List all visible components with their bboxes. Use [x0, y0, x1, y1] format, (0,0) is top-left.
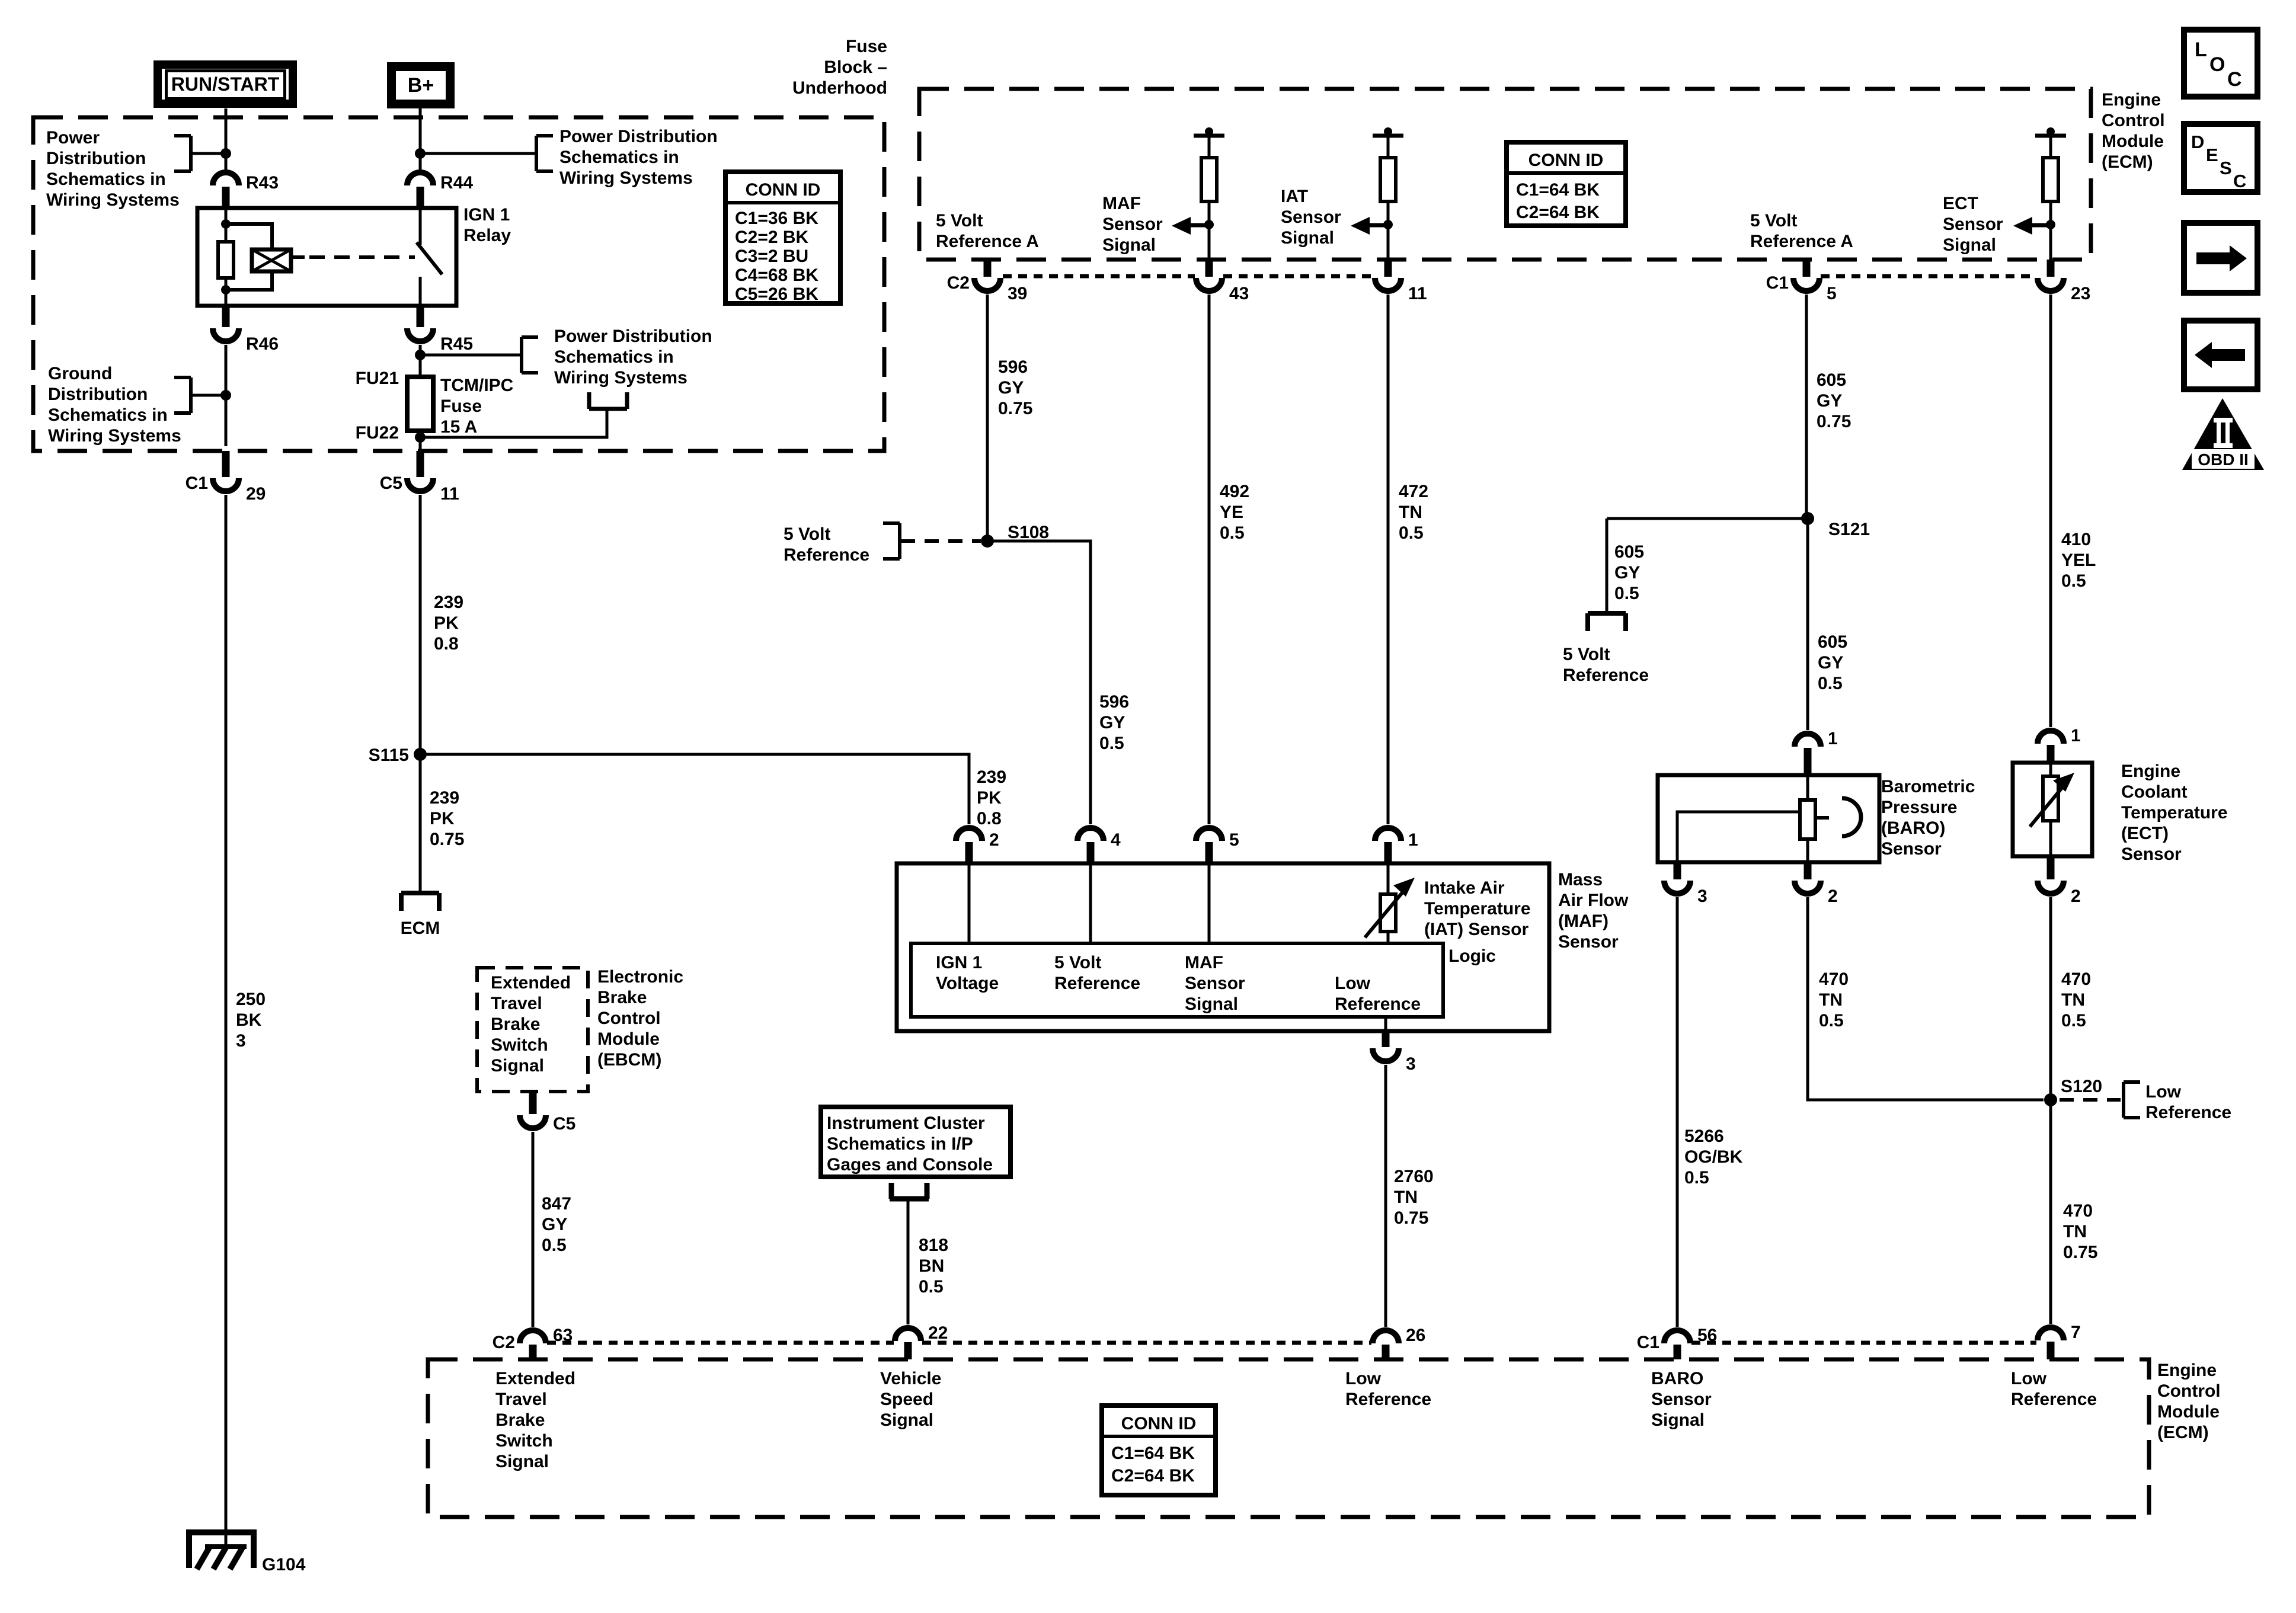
- junction S108: [981, 535, 994, 548]
- engine control module bottom dashed box: [428, 1359, 2149, 1517]
- svg-text:0.5: 0.5: [1614, 584, 1639, 603]
- svg-text:472: 472: [1399, 482, 1428, 501]
- svg-text:Control: Control: [597, 1009, 661, 1028]
- connector pin 5: [1196, 828, 1239, 863]
- svg-text:S: S: [2220, 158, 2232, 178]
- svg-text:Reference: Reference: [2011, 1390, 2097, 1409]
- svg-text:Temperature: Temperature: [2121, 803, 2228, 822]
- label 847 GY 0.5: [542, 1194, 571, 1255]
- wire 847 GY 0.5: [532, 1132, 535, 1327]
- svg-text:39: 39: [1008, 284, 1027, 303]
- svg-text:Wiring Systems: Wiring Systems: [554, 368, 687, 388]
- label MAF sensor signal pin: [1185, 953, 1245, 1014]
- svg-text:GY: GY: [1817, 391, 1842, 411]
- svg-text:PK: PK: [430, 809, 455, 828]
- svg-text:OBD II: OBD II: [2198, 450, 2249, 469]
- svg-text:Schematics in: Schematics in: [554, 347, 674, 367]
- label instrument cluster: [827, 1113, 993, 1174]
- svg-text:Engine: Engine: [2157, 1361, 2217, 1380]
- svg-text:11: 11: [440, 484, 459, 504]
- wire fuse to C5: [419, 431, 422, 452]
- svg-text:Module: Module: [2157, 1402, 2220, 1422]
- svg-text:Wiring Systems: Wiring Systems: [559, 168, 693, 188]
- svg-text:0.5: 0.5: [2061, 1011, 2086, 1030]
- arrow IAT signal: [1351, 217, 1388, 235]
- bracket power distribution callout: [174, 136, 191, 171]
- icon arrow left: [2184, 321, 2257, 389]
- junction IAT signal: [1383, 220, 1393, 229]
- connector boundary fine dash top left: [1003, 274, 1195, 279]
- label 5 volt reference dest: [1563, 645, 1649, 685]
- wire coil to R46: [225, 290, 228, 306]
- svg-text:Low: Low: [2145, 1082, 2182, 1102]
- svg-text:Reference: Reference: [2145, 1103, 2231, 1122]
- svg-text:470: 470: [1819, 969, 1849, 989]
- svg-text:818: 818: [919, 1236, 948, 1255]
- svg-text:Intake Air: Intake Air: [1424, 878, 1505, 898]
- wire solenoid stub: [291, 255, 305, 259]
- svg-text:C4=68 BK: C4=68 BK: [735, 265, 818, 285]
- svg-text:5 Volt: 5 Volt: [936, 211, 983, 231]
- IAT thermistor arrow: [1365, 878, 1415, 937]
- label barometric pressure sensor: [1881, 777, 1975, 859]
- svg-text:(IAT) Sensor: (IAT) Sensor: [1424, 920, 1528, 939]
- wire ECT internal top: [2049, 763, 2052, 776]
- svg-text:0.5: 0.5: [1099, 734, 1124, 753]
- connector 43: [1196, 260, 1249, 303]
- wire relay coil top: [225, 208, 228, 224]
- svg-text:0.5: 0.5: [542, 1236, 567, 1255]
- wire S121 left branch: [1607, 517, 1808, 520]
- svg-text:Block –: Block –: [824, 57, 887, 77]
- CONN ID box ECM top: [1507, 142, 1626, 226]
- arrow MAF signal: [1172, 217, 1209, 235]
- svg-text:Barometric: Barometric: [1881, 777, 1975, 796]
- label ground distribution schematics: [48, 364, 181, 446]
- svg-text:29: 29: [246, 484, 266, 504]
- svg-text:Signal: Signal: [1651, 1410, 1705, 1430]
- svg-text:Low: Low: [1345, 1369, 1382, 1388]
- svg-text:Power: Power: [46, 128, 100, 148]
- label power distribution schematics: [46, 128, 180, 210]
- svg-text:0.75: 0.75: [1817, 412, 1851, 431]
- svg-text:CONN ID: CONN ID: [746, 180, 821, 200]
- svg-text:C2=2 BK: C2=2 BK: [735, 228, 809, 247]
- wire 472 TN 0.5: [1387, 295, 1390, 824]
- svg-text:B+: B+: [408, 74, 434, 97]
- junction FU22 branch: [415, 432, 426, 443]
- label S115: [369, 745, 409, 765]
- svg-text:Low: Low: [1335, 974, 1371, 993]
- label 5 volt reference: [784, 524, 869, 565]
- svg-text:0.75: 0.75: [998, 399, 1032, 418]
- svg-text:R45: R45: [440, 334, 473, 354]
- svg-text:Sensor: Sensor: [2121, 844, 2182, 864]
- svg-text:Sensor: Sensor: [1281, 207, 1341, 227]
- resistor ECT thermistor: [2043, 776, 2058, 821]
- svg-text:Fuse: Fuse: [440, 396, 482, 416]
- wire B+ to R44: [419, 108, 422, 170]
- junction coil top: [221, 219, 231, 229]
- label 605 GY 0.5: [1818, 632, 1847, 693]
- wire logic to pin 3: [1384, 1017, 1387, 1031]
- wire S121 branch down: [1606, 519, 1609, 613]
- label mass air flow sensor: [1558, 870, 1629, 952]
- label 596 GY 0.75: [998, 357, 1032, 418]
- connector boundary fine dash bottom right: [1691, 1341, 2036, 1345]
- wire 250 BK to G104: [225, 495, 228, 1545]
- svg-text:Distribution: Distribution: [46, 149, 146, 168]
- ground G104: [189, 1532, 254, 1569]
- svg-text:C2=64 BK: C2=64 BK: [1111, 1466, 1195, 1486]
- label EBCM: [597, 967, 683, 1070]
- svg-text:5 Volt: 5 Volt: [784, 524, 830, 544]
- junction S115: [414, 748, 427, 761]
- fuse block underhood dashed box: [33, 117, 884, 451]
- svg-text:CONN ID: CONN ID: [1121, 1414, 1197, 1433]
- svg-text:MAF: MAF: [1102, 194, 1141, 213]
- connector BARO pin 3 conn: [1664, 862, 1707, 906]
- bracket power distribution callout 4: [589, 392, 627, 409]
- svg-text:C2: C2: [947, 273, 970, 293]
- svg-text:3: 3: [1406, 1054, 1416, 1074]
- svg-text:Schematics in: Schematics in: [48, 405, 168, 425]
- svg-text:0.8: 0.8: [434, 634, 459, 654]
- label S108: [1008, 523, 1049, 542]
- svg-text:56: 56: [1697, 1326, 1717, 1345]
- svg-text:Vehicle: Vehicle: [880, 1369, 941, 1388]
- bracket power distribution callout 2: [536, 136, 553, 171]
- svg-text:TN: TN: [1399, 503, 1422, 522]
- svg-text:OG/BK: OG/BK: [1684, 1147, 1743, 1167]
- label intake air temperature sensor: [1424, 878, 1531, 939]
- svg-text:239: 239: [430, 788, 459, 808]
- label Fuse Block Underhood: [792, 37, 887, 98]
- svg-text:Pressure: Pressure: [1881, 798, 1957, 817]
- svg-text:ECM: ECM: [401, 918, 440, 938]
- dest bracket instrument cluster: [890, 1183, 929, 1199]
- wire BARO pin2 internal: [1806, 839, 1809, 862]
- svg-text:TCM/IPC: TCM/IPC: [440, 376, 513, 395]
- svg-text:Instrument Cluster: Instrument Cluster: [827, 1113, 985, 1133]
- svg-text:Reference A: Reference A: [1750, 232, 1853, 251]
- label 5 Volt Reference A left: [936, 211, 1039, 251]
- wire 818 BN 0.5: [907, 1198, 910, 1324]
- svg-text:Signal: Signal: [1102, 235, 1156, 255]
- connector BARO pin 1: [1795, 729, 1838, 775]
- svg-text:S108: S108: [1008, 523, 1049, 542]
- label MAF sensor signal: [1102, 194, 1163, 255]
- svg-text:Schematics in: Schematics in: [46, 169, 166, 189]
- label S120: [2061, 1077, 2102, 1096]
- junction S120: [2044, 1093, 2057, 1106]
- dashed wire low reference: [2060, 1098, 2121, 1102]
- junction MAF signal: [1204, 220, 1214, 229]
- label S121: [1828, 520, 1870, 539]
- ECT thermistor arrow: [2030, 773, 2074, 827]
- label G104: [262, 1555, 306, 1574]
- svg-text:(ECM): (ECM): [2102, 152, 2153, 172]
- svg-text:Distribution: Distribution: [48, 385, 148, 404]
- connector pin 4: [1077, 828, 1121, 863]
- icon LOC: [2184, 30, 2257, 97]
- MAF sensor box: [897, 863, 1549, 1031]
- instrument cluster box: [821, 1107, 1011, 1177]
- wire to power dist bracket 3: [420, 354, 522, 357]
- EBCM dashed box: [477, 968, 588, 1092]
- wire 492 YE 0.5: [1208, 295, 1211, 824]
- wire to power dist bracket: [191, 152, 226, 155]
- ECT pullup wire: [2049, 136, 2052, 158]
- svg-text:470: 470: [2061, 969, 2091, 989]
- svg-text:Brake: Brake: [495, 1410, 545, 1430]
- svg-text:605: 605: [1817, 370, 1846, 390]
- svg-text:GY: GY: [1614, 563, 1640, 583]
- svg-text:C1=36 BK: C1=36 BK: [735, 209, 818, 228]
- svg-text:605: 605: [1818, 632, 1847, 652]
- connector pin 3: [1373, 1031, 1416, 1074]
- wire 2760 TN 0.75: [1384, 1065, 1387, 1327]
- connector C1 5: [1766, 260, 1837, 303]
- svg-text:43: 43: [1229, 284, 1249, 303]
- svg-text:Reference A: Reference A: [936, 232, 1039, 251]
- connector boundary fine dash top mid: [1223, 274, 1374, 279]
- label 5 volt reference pin: [1054, 953, 1140, 993]
- wire BARO pin1 internal: [1806, 775, 1809, 800]
- svg-text:Power Distribution: Power Distribution: [559, 127, 718, 146]
- svg-text:Gages and Console: Gages and Console: [827, 1155, 993, 1174]
- connector C2 39: [947, 260, 1028, 303]
- connector 22: [895, 1323, 948, 1359]
- svg-text:Module: Module: [597, 1029, 660, 1049]
- svg-text:C5=26 BK: C5=26 BK: [735, 284, 818, 304]
- svg-text:239: 239: [977, 767, 1006, 787]
- label vehicle speed signal: [880, 1369, 941, 1430]
- wire pin4 to logic: [1089, 863, 1092, 943]
- wire S121 to BARO: [1806, 519, 1809, 730]
- svg-text:Signal: Signal: [1185, 994, 1238, 1014]
- svg-text:0.5: 0.5: [1220, 523, 1245, 543]
- wire S108 to pin 4: [987, 541, 1091, 824]
- connector C1 56: [1637, 1326, 1718, 1359]
- svg-text:Signal: Signal: [1281, 228, 1334, 248]
- svg-text:L: L: [2195, 39, 2207, 61]
- svg-text:IAT: IAT: [1281, 187, 1308, 206]
- wire: [225, 278, 228, 290]
- svg-text:Travel: Travel: [495, 1390, 547, 1409]
- svg-text:TN: TN: [2061, 990, 2085, 1010]
- MAF pullup wire: [1208, 136, 1211, 158]
- svg-text:Relay: Relay: [463, 226, 511, 245]
- svg-text:2: 2: [989, 830, 999, 850]
- connector C5 11: [380, 451, 459, 504]
- label ECM bottom: [2157, 1361, 2221, 1442]
- wire ECT internal bottom: [2049, 821, 2052, 856]
- svg-text:15 A: 15 A: [440, 417, 477, 437]
- label 605 GY 0.5 branch: [1614, 542, 1644, 603]
- wire FU22 to callout: [420, 409, 607, 437]
- svg-text:TN: TN: [1819, 990, 1843, 1010]
- svg-text:0.5: 0.5: [2061, 571, 2086, 591]
- svg-text:Air Flow: Air Flow: [1558, 891, 1629, 910]
- wire RUN/START to R43: [225, 108, 228, 170]
- svg-text:Underhood: Underhood: [792, 78, 887, 98]
- svg-text:Logic: Logic: [1448, 946, 1496, 966]
- dest bracket ECM: [401, 893, 439, 911]
- svg-text:0.8: 0.8: [977, 809, 1002, 828]
- IGN 1 relay box: [197, 208, 456, 306]
- svg-text:470: 470: [2063, 1201, 2093, 1221]
- svg-text:MAF: MAF: [1185, 953, 1223, 972]
- svg-text:5 Volt: 5 Volt: [1563, 645, 1610, 664]
- svg-text:S115: S115: [369, 745, 409, 765]
- svg-text:847: 847: [542, 1194, 571, 1214]
- connector C2 63: [493, 1326, 573, 1359]
- svg-text:(BARO): (BARO): [1881, 818, 1945, 838]
- svg-text:PK: PK: [977, 788, 1002, 808]
- connector 26: [1373, 1326, 1425, 1359]
- ECT pullup top dot: [2046, 127, 2055, 136]
- svg-text:IGN 1: IGN 1: [463, 205, 510, 225]
- svg-text:492: 492: [1220, 482, 1249, 501]
- IAT pullup wire: [1387, 136, 1390, 158]
- wire coil parallel branch: [226, 224, 272, 290]
- label 239 PK 0.8: [434, 593, 463, 654]
- svg-text:GY: GY: [1099, 713, 1125, 732]
- svg-text:23: 23: [2071, 284, 2090, 303]
- icon OBD II triangle: [2182, 398, 2264, 470]
- label TCM/IPC fuse: [440, 376, 513, 437]
- label 250 BK 3: [236, 990, 266, 1051]
- svg-text:(ECM): (ECM): [2157, 1423, 2209, 1442]
- svg-text:Ground: Ground: [48, 364, 112, 383]
- svg-text:0.5: 0.5: [919, 1277, 944, 1297]
- BARO pressure port symbol: [1815, 798, 1861, 836]
- svg-text:Engine: Engine: [2102, 90, 2161, 110]
- svg-text:CONN ID: CONN ID: [1528, 151, 1604, 170]
- svg-text:Extended: Extended: [491, 973, 571, 993]
- svg-text:C1: C1: [1766, 273, 1789, 293]
- power box RUN/START: [158, 65, 293, 104]
- svg-text:Extended: Extended: [495, 1369, 575, 1388]
- relay solenoid box: [252, 249, 291, 271]
- label 410 YEL 0.5: [2061, 530, 2096, 591]
- svg-text:0.75: 0.75: [430, 830, 464, 849]
- label FU22: [356, 423, 399, 443]
- wire: [225, 224, 228, 242]
- svg-text:Reference: Reference: [1335, 994, 1421, 1014]
- label 5266 OG/BK 0.5: [1684, 1126, 1743, 1188]
- bracket ground distribution callout: [174, 377, 191, 413]
- svg-text:Control: Control: [2102, 111, 2165, 130]
- label IAT sensor signal: [1281, 187, 1341, 248]
- resistor ECT pullup: [2043, 158, 2058, 201]
- svg-text:1: 1: [1828, 729, 1838, 748]
- svg-text:C: C: [2227, 68, 2242, 91]
- label 605 GY 0.75: [1817, 370, 1851, 431]
- junction coil bottom: [221, 285, 231, 295]
- IAT pullup wire lower: [1387, 201, 1390, 260]
- svg-text:YE: YE: [1220, 503, 1243, 522]
- relay coil resistor: [218, 242, 234, 278]
- svg-text:Wiring Systems: Wiring Systems: [46, 190, 180, 210]
- CONN ID box ECM bottom: [1102, 1406, 1216, 1495]
- connector C1 29: [186, 451, 266, 504]
- label 2760 TN 0.75: [1394, 1167, 1434, 1228]
- fuse FU21/FU22 TCM/IPC 15A: [407, 377, 433, 431]
- svg-text:GY: GY: [998, 378, 1024, 398]
- svg-text:Temperature: Temperature: [1424, 899, 1531, 918]
- svg-text:Fuse: Fuse: [846, 37, 887, 56]
- svg-text:0.5: 0.5: [1684, 1168, 1709, 1188]
- svg-text:C5: C5: [380, 473, 402, 493]
- svg-text:22: 22: [928, 1323, 948, 1343]
- ECT pullup wire lower: [2049, 201, 2052, 260]
- ECT sensor box: [2013, 763, 2092, 856]
- junction ground branch: [220, 390, 231, 401]
- svg-text:C3=2 BU: C3=2 BU: [735, 247, 808, 266]
- svg-text:Reference: Reference: [1345, 1390, 1431, 1409]
- svg-text:0.5: 0.5: [1819, 1011, 1844, 1030]
- label 239 PK 0.75: [430, 788, 464, 849]
- svg-text:Module: Module: [2102, 132, 2164, 151]
- wire BARO pin3 internal: [1677, 812, 1800, 862]
- BARO sensor box: [1658, 775, 1879, 862]
- svg-text:5: 5: [1827, 284, 1837, 303]
- label IGN 1 voltage: [936, 953, 999, 993]
- svg-text:7: 7: [2071, 1323, 2081, 1342]
- connector R46: [213, 306, 279, 354]
- connector boundary fine dash top right: [1821, 274, 2036, 279]
- svg-text:TN: TN: [1394, 1188, 1418, 1207]
- svg-text:Sensor: Sensor: [1102, 215, 1163, 234]
- svg-text:5 Volt: 5 Volt: [1054, 953, 1101, 972]
- icon DESC: [2184, 124, 2257, 192]
- svg-text:596: 596: [1099, 692, 1129, 712]
- svg-text:0.5: 0.5: [1818, 674, 1843, 693]
- wire R45 to fuse: [419, 345, 422, 377]
- label engine coolant temperature sensor: [2121, 761, 2228, 864]
- svg-text:Travel: Travel: [491, 994, 542, 1013]
- svg-text:5 Volt: 5 Volt: [1750, 211, 1797, 231]
- svg-text:C1: C1: [186, 473, 208, 493]
- label 470 TN 0.5 ECT: [2061, 969, 2091, 1030]
- svg-text:C1=64 BK: C1=64 BK: [1111, 1444, 1195, 1463]
- svg-text:(EBCM): (EBCM): [597, 1050, 661, 1070]
- svg-text:2: 2: [1828, 886, 1838, 906]
- relay control dashed line: [309, 255, 415, 259]
- connector boundary fine dash bottom left: [547, 1341, 894, 1345]
- label 596 GY 0.5: [1099, 692, 1129, 753]
- wire 239 PK to ECM: [419, 495, 422, 893]
- svg-text:63: 63: [553, 1326, 573, 1345]
- svg-text:BK: BK: [236, 1010, 262, 1030]
- label extended travel brake switch signal: [495, 1369, 575, 1471]
- label IGN 1 Relay: [463, 205, 511, 245]
- svg-text:S121: S121: [1828, 520, 1870, 539]
- svg-text:4: 4: [1111, 830, 1121, 850]
- wire to ground dist bracket: [191, 394, 226, 397]
- dest bracket 5 volt reference: [1588, 613, 1626, 631]
- connector pin 1: [1375, 828, 1418, 863]
- svg-text:1: 1: [2071, 726, 2081, 745]
- svg-text:Coolant: Coolant: [2121, 782, 2188, 802]
- svg-text:Schematics in: Schematics in: [559, 148, 679, 167]
- svg-text:C: C: [2233, 171, 2246, 191]
- svg-text:Engine: Engine: [2121, 761, 2180, 781]
- svg-text:Signal: Signal: [495, 1452, 549, 1471]
- junction B+ branch: [415, 148, 426, 159]
